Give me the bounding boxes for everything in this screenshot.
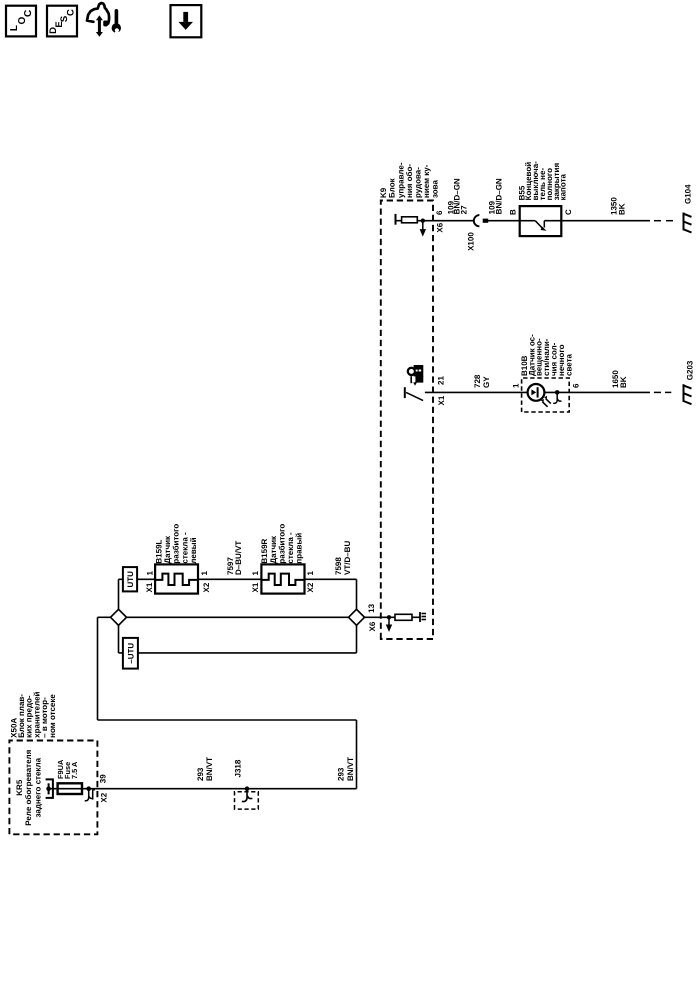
svg-text:7.5 A: 7.5 A [70,761,79,779]
svg-text:BN/D–GN: BN/D–GN [494,178,503,214]
B159R piezo element [261,574,304,585]
splice diamond S2 [349,609,365,625]
svg-text:заднего стекла: заднего стекла [34,757,43,817]
svg-text:728: 728 [473,374,482,388]
hood ajar switch B55 [520,206,562,236]
svg-text:J318: J318 [234,759,243,777]
B10B photodiode symbol [531,387,537,397]
icon down arrow box [171,5,202,37]
glass breakage sensor B159R [261,564,304,593]
K9 node X6:13 [387,615,391,619]
svg-text:293: 293 [337,767,346,781]
wire 7598 VT/D-BU [305,578,357,580]
relay KR5 contact [46,779,53,798]
glass breakage sensor B159L [155,564,198,593]
svg-text:C: C [564,209,573,215]
svg-text:X1: X1 [145,582,154,592]
svg-text:6: 6 [435,210,444,215]
svg-text:света: света [564,353,573,376]
svg-text:1: 1 [306,571,315,576]
K9 internal supply bar (X6:6) [395,214,397,225]
svg-text:X1: X1 [437,395,446,405]
svg-text:C: C [23,10,34,17]
svg-text:BN/VT: BN/VT [205,757,214,781]
K9 internal resistor (X6:13) [395,614,412,620]
svg-text:капота: капота [559,174,568,201]
wire diamond S1 to diamond S2 [126,616,348,618]
svg-text:зова: зова [431,180,440,198]
svg-text:6: 6 [571,383,580,388]
svg-text:ном отсеке: ном отсеке [48,694,57,738]
wire to internal resistor [389,616,395,618]
B10B node pin 6 [555,390,560,395]
K9 driver arrow (X6:6) [420,221,426,237]
icon LOC box [6,6,36,37]
inline connector X100 [474,215,488,226]
K9 internal ground (X6:13) [420,612,426,622]
svg-text:UTU: UTU [126,571,135,588]
wire 1350 BK [561,220,650,222]
B159L piezo element [155,574,198,585]
svg-text:BN/VT: BN/VT [346,757,355,781]
dashed wire to G104 [654,220,661,222]
svg-text:левый: левый [189,537,198,563]
svg-text:X2: X2 [202,582,211,592]
ground G104 [684,213,692,233]
K9 internal contact bar (X1:21) [404,387,406,398]
wire 7597 D-BU/VT [198,578,261,580]
svg-text:X2: X2 [306,582,315,592]
fuse block X50A dashed box [9,741,97,835]
svg-text:B: B [508,209,517,215]
icon vehicle lift with wrench [87,3,121,37]
svg-text:X2: X2 [99,792,108,802]
svg-text:правый: правый [295,533,304,564]
svg-text:–UTU: –UTU [126,643,135,664]
svg-text:G104: G104 [683,184,692,204]
sunlight sensor B10B dashed box [522,378,570,412]
K9 vehicle glyph (X1:21) [408,365,424,386]
svg-text:L: L [9,25,20,31]
svg-text:GY: GY [482,376,491,388]
svg-text:BK: BK [617,203,626,215]
wire through B10B [544,391,650,393]
K9 internal resistor (X6:6) [402,217,418,223]
wire from relay to fuse [49,788,89,790]
BCM K9 dashed box [381,201,433,640]
svg-text:VT/D–BU: VT/D–BU [343,541,352,575]
svg-text:X6: X6 [368,621,377,631]
wire fuse node to splice diamond S1 [98,616,111,618]
wire 293 BN/VT fuse run down [89,788,357,790]
B55 switch blade [520,221,562,231]
wire X100 to B55 [483,220,520,222]
svg-text:39: 39 [98,774,107,783]
wire diamond S2 to K9 X6 13 [364,616,389,618]
splice J318 [235,786,259,809]
svg-text:BK: BK [619,376,628,388]
svg-text:C: C [65,9,76,16]
wire 293 BN/VT top run [97,617,99,720]
K9 internal switch blade (X1:21) [406,392,423,400]
schematic (rotated 90deg CCW content) [9,161,694,834]
svg-text:1: 1 [251,571,260,576]
svg-text:D–BU/VT: D–BU/VT [234,541,243,575]
svg-text:X1: X1 [251,582,260,592]
dashed wire to G203 [654,391,661,393]
svg-text:Реле обогревателя: Реле обогревателя [24,749,33,825]
svg-text:293: 293 [196,767,205,781]
K9 driver arrow (X6:13) [386,617,392,632]
svg-text:X100: X100 [466,232,475,251]
wire UTU to B159L [137,578,155,580]
wire X1:21 [425,391,528,393]
K9 node X6:6 [421,219,425,223]
fuse F9UA [58,783,82,794]
wire 293 BN/VT bottom run [356,720,358,789]
svg-text:KR5: KR5 [15,779,24,796]
svg-text:X6: X6 [436,222,445,232]
svg-text:G203: G203 [685,360,694,380]
B10B photodiode circle [528,384,545,401]
svg-text:27: 27 [460,205,469,214]
icon DESC box [47,6,77,37]
svg-text:13: 13 [367,603,376,612]
-UTU return wire [138,652,357,654]
svg-text:1: 1 [145,571,154,576]
B10B light arrows [541,396,551,407]
UTU box [123,567,137,591]
B10B pigtail [553,392,561,403]
svg-text:1: 1 [200,571,209,576]
wire S1 to UTU [118,579,120,609]
svg-text:7598: 7598 [334,557,343,575]
svg-text:1: 1 [511,383,520,388]
svg-text:21: 21 [436,376,445,385]
wire 293 BN/VT up run [98,719,357,721]
wire X6:6 to X100 [423,220,474,222]
splice diamond S1 [111,609,127,625]
connector symbol X2 pin 39 [85,786,95,800]
wire S1 to -UTU [118,625,120,653]
ground G203 [684,384,692,404]
-UTU box [123,638,138,669]
